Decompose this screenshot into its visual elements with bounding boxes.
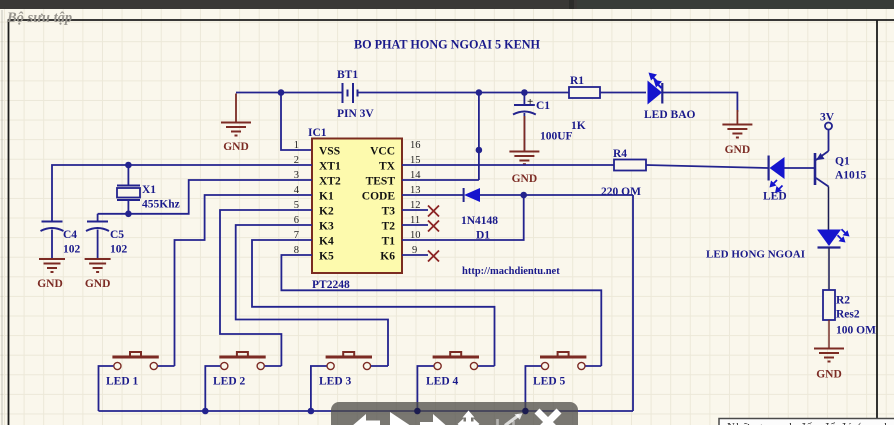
svg-text:GND: GND (37, 278, 63, 290)
svg-text:http://machdientu.net: http://machdientu.net (462, 266, 560, 277)
LED (on TX line) (769, 156, 785, 194)
overlay icon play (390, 412, 414, 425)
wire: battery GND stem (235, 94, 237, 123)
svg-text:TEST: TEST (366, 176, 396, 188)
svg-text:LED: LED (763, 191, 787, 203)
svg-text:102: 102 (110, 244, 128, 256)
svg-text:1N4148: 1N4148 (461, 215, 498, 227)
wire: XT1 net (52, 165, 312, 221)
svg-text:BO PHAT HONG NGOAI 5 KENH: BO PHAT HONG NGOAI 5 KENH (354, 38, 541, 52)
svg-text:Bộ sưu tập: Bộ sưu tập (6, 10, 72, 26)
wire: C1 GND stem (523, 116, 525, 152)
resistor R2 (823, 290, 835, 320)
switch LED5 (540, 352, 586, 370)
wire: CODE/D1 net (402, 195, 633, 411)
svg-text:R4: R4 (613, 148, 627, 160)
svg-text:GND: GND (512, 173, 538, 185)
wire: LED BAO GND stem (736, 110, 738, 124)
svg-text:455Khz: 455Khz (142, 199, 180, 211)
switch LED1 (112, 352, 158, 370)
svg-text:GND: GND (85, 278, 111, 290)
svg-text:LED 2: LED 2 (213, 376, 246, 388)
overlay icon move (458, 411, 480, 425)
label LED 4 (426, 376, 459, 388)
wire: switch LED3 stubs (311, 366, 388, 411)
wire: R2 to GND (828, 320, 830, 348)
svg-text:PT2248: PT2248 (312, 279, 350, 291)
url text (462, 266, 560, 277)
junction: C1 top (521, 89, 528, 96)
svg-text:K5: K5 (319, 251, 334, 263)
transistor Q1 arrow (816, 153, 824, 160)
IC IC1 PT2248 body (312, 139, 402, 274)
capacitor C4 (41, 222, 64, 259)
IC pin numbers (294, 140, 422, 256)
wire: top GND rail (236, 93, 342, 151)
wire: K2 to button2 (220, 210, 312, 366)
svg-text:T3: T3 (382, 206, 396, 218)
svg-text:R1: R1 (570, 75, 584, 87)
label LED 3 (319, 376, 352, 388)
svg-text:100UF: 100UF (540, 131, 573, 143)
ground (R2) (814, 349, 844, 362)
ground (C1) (509, 152, 539, 165)
overlay icon edit (498, 413, 523, 425)
LED BAO (648, 73, 663, 105)
svg-text:LED 4: LED 4 (426, 376, 459, 388)
diode D1 1N4148 (464, 188, 480, 202)
ground (C4) (39, 259, 65, 272)
wire: XT2 net (98, 180, 312, 221)
no-connect pin9 (428, 251, 439, 262)
svg-text:T2: T2 (382, 221, 396, 233)
no-connect pin12 (428, 206, 439, 217)
svg-text:+: + (527, 96, 533, 108)
power port 3V (825, 123, 832, 152)
label LED 5 (533, 376, 566, 388)
svg-text:PIN 3V: PIN 3V (337, 108, 374, 120)
svg-text:GND: GND (816, 369, 842, 381)
wire: K4 to button4 (252, 240, 495, 366)
junction: VCC/pin16 (476, 89, 483, 153)
svg-text:K4: K4 (319, 236, 334, 248)
svg-text:BT1: BT1 (337, 69, 358, 81)
svg-text:TX: TX (379, 161, 396, 173)
wire: Q1 collector down (828, 187, 830, 230)
wire: TX net (402, 165, 815, 168)
switch LED4 (433, 352, 479, 370)
svg-text:GND: GND (223, 141, 249, 153)
svg-text:16: 16 (410, 140, 421, 151)
wire: K5 to button5 (281, 255, 601, 366)
ground (battery) (221, 123, 251, 136)
video overlay (331, 402, 578, 425)
svg-text:T1: T1 (382, 236, 396, 248)
svg-text:1K: 1K (571, 120, 586, 132)
overlay icon back (352, 414, 380, 425)
ground (LED BAO) (722, 125, 752, 138)
svg-text:LED HONG NGOAI: LED HONG NGOAI (706, 249, 805, 261)
svg-text:Res2: Res2 (836, 309, 860, 321)
wire: VCC rail (358, 93, 738, 181)
wire: TEST/pin14 (402, 179, 479, 181)
IC pin names (319, 146, 396, 263)
svg-text:A1015: A1015 (835, 170, 867, 182)
ground (C5) (85, 259, 111, 272)
topbar tab (569, 0, 894, 9)
switch LED3 (326, 352, 372, 370)
junction: dots through overlay (414, 408, 528, 414)
junction: VSS rail (278, 89, 285, 96)
svg-text:Q1: Q1 (835, 156, 850, 168)
svg-text:LED 3: LED 3 (319, 376, 352, 388)
svg-text:GND: GND (725, 144, 751, 156)
svg-text:IC1: IC1 (308, 127, 327, 139)
capacitor C1 (513, 93, 536, 153)
wire: LED to R2 (828, 248, 830, 291)
overlay icon forward (420, 414, 449, 425)
junction: D1/T1 (520, 192, 527, 199)
svg-text:LED BAO: LED BAO (644, 109, 695, 121)
switch LED2 (219, 352, 265, 370)
svg-text:1: 1 (294, 140, 299, 151)
capacitor C5 (86, 222, 109, 259)
svg-text:LED 5: LED 5 (533, 376, 566, 388)
svg-text:VSS: VSS (319, 146, 340, 158)
watermark (6, 10, 72, 26)
label LED 2 (213, 376, 246, 388)
svg-text:K1: K1 (319, 191, 334, 203)
svg-text:3V: 3V (820, 112, 835, 124)
svg-text:X1: X1 (142, 184, 156, 196)
screen left edge line (2, 10, 3, 425)
wire: switch LED5 stubs (525, 366, 601, 411)
svg-text:C5: C5 (110, 229, 124, 241)
svg-text:C4: C4 (63, 229, 77, 241)
svg-text:LED 1: LED 1 (106, 376, 139, 388)
svg-text:XT2: XT2 (319, 176, 341, 188)
wire: K3 to button3 (236, 225, 388, 366)
resistor R4 (614, 160, 646, 171)
svg-text:K6: K6 (380, 251, 395, 263)
svg-text:Những mạch đến để đó (mạch là: Những mạch đến để đó (mạch là d (727, 421, 894, 425)
junction: XT1/crystal (125, 162, 132, 169)
svg-text:100 OM: 100 OM (836, 325, 876, 337)
svg-text:K3: K3 (319, 221, 334, 233)
wire: bottom rail (99, 410, 634, 412)
wire: pin9 stub (402, 254, 428, 256)
wire: pin12 stub (402, 209, 428, 211)
svg-text:R2: R2 (836, 295, 850, 307)
wire: switch LED1 stubs (99, 366, 175, 411)
resistor R1 (569, 87, 600, 98)
svg-text:XT1: XT1 (319, 161, 341, 173)
battery BT1 (343, 83, 358, 103)
svg-text:102: 102 (63, 244, 81, 256)
wire: K1 to button1 (175, 195, 313, 366)
junction: XT2/crystal (125, 211, 132, 218)
title (354, 38, 541, 52)
svg-text:CODE: CODE (362, 191, 396, 203)
no-connect pin11 (428, 221, 439, 232)
svg-text:C1: C1 (536, 100, 550, 112)
transistor Q1 (815, 151, 829, 187)
svg-text:D1: D1 (476, 230, 490, 242)
wire: pin11 stub (402, 224, 428, 226)
wire: switch LED4 stubs (417, 366, 494, 411)
svg-text:220 OM: 220 OM (601, 186, 641, 198)
LED HONG NGOAI (817, 229, 850, 247)
wire: switch LED2 stubs (205, 366, 281, 411)
label LED 1 (106, 376, 139, 388)
tooltip box bottom right (719, 419, 894, 425)
svg-text:VCC: VCC (370, 146, 395, 158)
crystal X1 (117, 186, 140, 201)
svg-text:K2: K2 (319, 206, 334, 218)
junction: rail dots (202, 408, 529, 415)
overlay icon close (537, 411, 559, 425)
